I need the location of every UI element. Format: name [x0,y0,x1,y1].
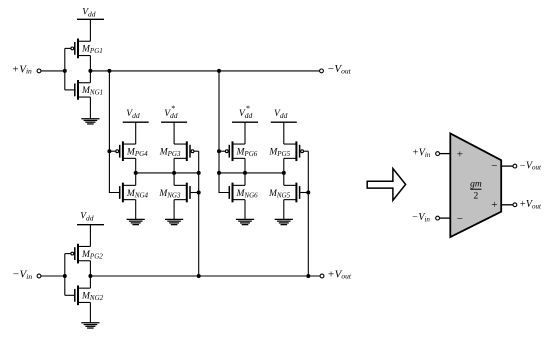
wire MNG5 gate [300,192,308,194]
wire +Vin to symbol [439,153,450,155]
input terminal -Vin [12,269,41,281]
wire V*dd to MPG6 drain [244,122,246,144]
svg-text:MPG2: MPG2 [81,250,103,261]
wire MNG2 gate [65,294,74,296]
wire -Vin to inv2 gates [41,275,65,277]
transistor MPG1 [71,39,103,59]
svg-text:MNG2: MNG2 [81,292,104,303]
power Vdd (MPG5) [271,109,297,122]
wire MNG2 source to ground [89,302,91,322]
ground (inv2) [81,323,99,328]
junction node row to inv3 gate bus [197,171,201,175]
svg-text:Vdd: Vdd [82,7,96,18]
wire MNG5 source to ground [283,200,285,220]
wire inv3 gate bus down to +Vout [198,151,200,276]
junction +Vout to inv5 gate bus [306,274,310,278]
input terminal -Vin (symbol) [412,212,440,223]
block arrow [367,169,405,201]
wire MNG3 gate [191,192,199,194]
transistor MNG1 [75,80,103,100]
transistor MPG4 [116,141,148,161]
wire Vdd to MPG4 drain [135,122,137,144]
wire symbol to -Vout [501,165,513,167]
svg-text:Vdd*: Vdd* [164,104,178,120]
svg-text:MNG5: MNG5 [268,189,291,200]
svg-text:MPG4: MPG4 [126,148,148,159]
ground (MNG4) [127,219,145,224]
power V*dd (MPG3) [161,104,187,122]
svg-text:2: 2 [474,192,479,202]
svg-text:gm: gm [470,180,482,190]
svg-text:−Vin: −Vin [412,212,431,223]
transistor MPG2 [71,244,103,264]
wire inv5 gate bus down to +Vout [307,151,309,276]
output terminal +Vout [320,268,352,280]
junction inv6 output [243,171,247,175]
svg-text:Vdd: Vdd [80,212,94,223]
output terminal -Vout [320,63,352,75]
power Vdd (MPG4) [123,109,149,122]
wire MNG1 source to ground [89,97,91,119]
junction MPG6 gate tap [217,149,221,153]
junction inv5 output [282,171,286,175]
svg-text:Vdd: Vdd [274,109,288,120]
wire -Vout net (top rail) [90,70,319,72]
transistor MNG5 [268,183,300,203]
power Vdd (inv1) [77,7,104,19]
transistor MNG4 [120,183,149,203]
junction -Vout to inv4 input [107,69,111,73]
svg-text:MPG5: MPG5 [268,148,290,159]
wire -Vin to symbol [439,217,450,219]
svg-text:+Vin: +Vin [12,63,32,75]
wire -Vout down to MNG4 gate [109,71,119,193]
input terminal +Vin (symbol) [412,148,440,159]
ground (MNG5) [275,219,293,224]
wire MPG4 gate [109,150,115,152]
svg-text:Vdd: Vdd [126,109,140,120]
wire MPG3 gate [194,150,199,152]
transistor MNG3 [158,183,190,203]
wire -Vout down to MNG6 gate [219,71,229,193]
junction inv2 input node [63,274,67,278]
transconductor symbol U1 (gm/2) [450,133,501,237]
wire MPG1 source to MNG1 drain [89,56,91,83]
wire Vdd to MPG5 drain [283,122,285,144]
wire V*dd to MPG3 drain [173,122,175,144]
svg-text:+Vout: +Vout [327,268,352,280]
svg-text:MNG3: MNG3 [158,189,181,200]
svg-text:MNG4: MNG4 [126,189,149,200]
output terminal +Vout (symbol) [513,199,542,210]
svg-text:MNG6: MNG6 [236,189,259,200]
wire MPG6 gate [219,150,225,152]
svg-text:Vdd*: Vdd* [239,104,253,120]
junction MPG4 gate tap [107,149,111,153]
power V*dd (MPG6) [232,104,258,122]
wire MPG5 source to MNG5 drain [283,158,285,185]
wire MNG1 gate [65,89,74,91]
transistor MPG5 [268,141,303,161]
wire right output node row [219,172,284,174]
svg-text:−Vout: −Vout [519,160,542,171]
ground (MNG6) [236,219,254,224]
ground (MNG3) [165,219,183,224]
junction MNG5 gate tap [306,191,310,195]
power Vdd (inv2) [77,212,104,225]
svg-text:−: − [491,160,497,172]
wire MNG4 source to ground [135,200,137,220]
wire MNG6 source to ground [244,200,246,220]
svg-text:MPG6: MPG6 [236,148,258,159]
wire Vdd to MPG2 drain [89,225,91,247]
label gm/2 [470,180,482,202]
wire inv2 gate bus [64,254,66,296]
junction MNG3 gate tap [197,191,201,195]
wire left output node row [136,172,199,174]
wire +Vin to inv1 gates [41,70,65,72]
output terminal -Vout (symbol) [513,160,542,171]
svg-text:MPG1: MPG1 [81,45,103,56]
wire MPG3 source to MNG3 drain [173,158,175,185]
wire MNG3 source to ground [173,200,175,220]
svg-text:MPG3: MPG3 [159,148,181,159]
wire symbol to +Vout [501,204,513,206]
wire MPG2 gate [65,253,71,255]
transistor MNG2 [75,285,104,305]
wire MPG2 source to MNG2 drain [89,261,91,288]
svg-text:−Vout: −Vout [327,63,352,75]
svg-text:+Vout: +Vout [519,199,542,210]
svg-text:+: + [491,199,497,211]
wire Vdd to MPG1 drain [89,19,91,41]
wire MPG6 source to MNG6 drain [244,158,246,185]
junction -Vout to inv6 input [217,69,221,73]
svg-text:−Vin: −Vin [12,269,32,281]
svg-text:+: + [457,148,463,160]
transistor MPG3 [159,141,194,161]
svg-text:−: − [457,213,463,225]
svg-text:+Vin: +Vin [412,148,431,159]
wire MPG5 gate [304,150,309,152]
junction inv2 output node [88,274,92,278]
junction node row to inv6 input bus [217,171,221,175]
transistor MPG6 [225,141,257,161]
input terminal +Vin [12,63,41,75]
wire MPG1 gate [65,47,71,49]
svg-text:MNG1: MNG1 [81,86,103,97]
wire MPG4 source to MNG4 drain [135,158,137,185]
wire inv1 gate bus [64,48,66,90]
junction +Vout to inv3 gate bus [197,274,201,278]
ground (inv1) [81,119,99,124]
junction inv1 input node [63,69,67,73]
junction inv4 output [134,171,138,175]
junction inv3 output [172,171,176,175]
wire +Vout net (bottom rail) [90,275,320,277]
transistor MNG6 [229,183,258,203]
junction inv1 output node [88,69,92,73]
